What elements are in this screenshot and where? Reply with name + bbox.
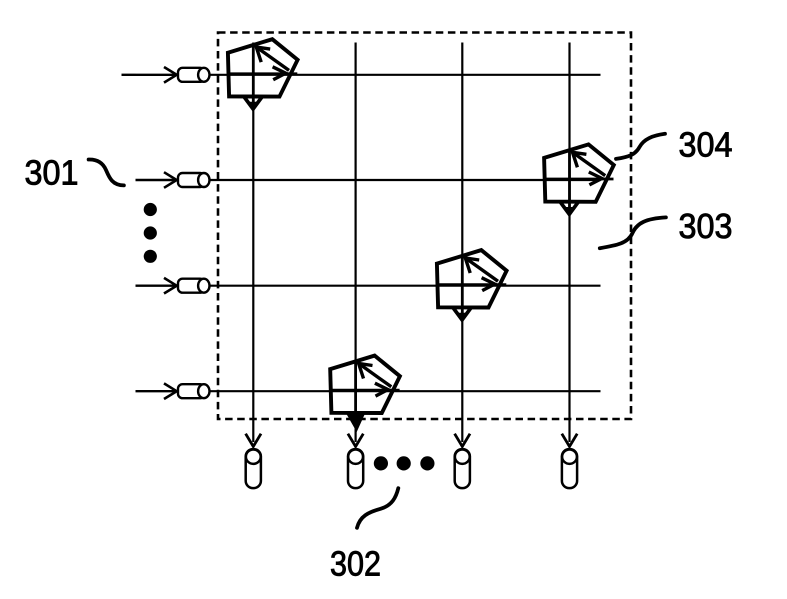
input arrow and capsule row 4 <box>136 383 210 399</box>
mirror element at row3 col3 <box>437 250 507 320</box>
input arrow and capsule row 3 <box>136 278 210 294</box>
svg-text:304: 304 <box>679 126 733 165</box>
mirror element at row2 col4 (304) <box>544 144 614 214</box>
vertical ellipsis dots left <box>144 203 157 216</box>
vertical waveguide col 1 <box>252 43 254 443</box>
horizontal waveguide row 3 <box>207 285 601 287</box>
horizontal waveguide row 4 <box>207 390 601 392</box>
output arrow and cylinder col 1 <box>246 434 261 488</box>
horizontal waveguide row 1 <box>207 74 601 76</box>
horizontal waveguide row 2 <box>207 179 601 181</box>
leader 302 <box>357 488 398 528</box>
svg-text:301: 301 <box>25 154 79 193</box>
output arrow and cylinder col 2 <box>348 434 363 488</box>
svg-text:302: 302 <box>330 545 381 584</box>
leader 304 <box>616 134 665 159</box>
output arrow and cylinder col 4 <box>562 434 577 488</box>
leader 303 <box>600 217 666 248</box>
mirror element at row4 col2 <box>330 356 400 430</box>
svg-text:303: 303 <box>679 207 733 246</box>
dashed matrix border 303 <box>218 33 631 420</box>
output arrow and cylinder col 3 <box>455 434 470 488</box>
input arrow and capsule row 2 <box>136 172 210 188</box>
mirror element at row1 col1 <box>228 39 298 109</box>
leader 301 <box>89 159 124 185</box>
horizontal ellipsis dots bottom <box>374 456 388 470</box>
vertical waveguide col 4 <box>568 43 570 443</box>
vertical waveguide col 3 <box>461 43 463 443</box>
vertical waveguide col 2 <box>355 43 357 443</box>
input arrow and capsule row 1 <box>122 67 210 83</box>
